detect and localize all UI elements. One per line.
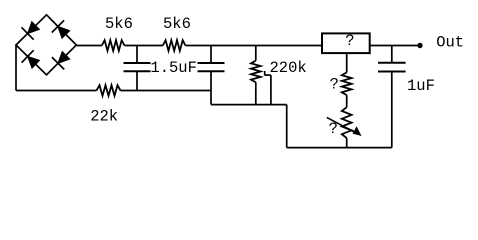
svg-text:22k: 22k — [90, 108, 118, 126]
resistor R3 22k — [97, 85, 121, 96]
diode D4 (bridge lower-right) — [52, 52, 70, 70]
wire mid rail — [211, 104, 287, 106]
tap wiper bar on 220k — [264, 71, 266, 75]
out terminal dot — [417, 43, 422, 48]
variable resistor VR1 (?) — [342, 107, 352, 138]
tap wire down — [270, 75, 272, 105]
diode bridge frame — [16, 15, 76, 75]
wire bridge left vertex down — [15, 45, 17, 91]
svg-text:1uF: 1uF — [407, 77, 435, 95]
diode D2 (bridge upper-right) — [52, 20, 70, 38]
wire R5 to VR1 — [346, 95, 348, 107]
capacitor C3 bottom lead — [391, 72, 393, 148]
diode D3 (bridge lower-left) — [22, 50, 40, 68]
wire bottom rail to 22k — [16, 90, 97, 92]
svg-text:Out: Out — [436, 34, 464, 52]
wire box bottom — [346, 53, 348, 72]
resistor R4 bottom lead — [255, 82, 257, 104]
capacitor C2 bottom lead — [210, 71, 212, 104]
wire 22k to C2 node — [121, 90, 212, 92]
resistor R2 5k6 — [163, 40, 186, 51]
svg-text:5k6: 5k6 — [163, 15, 191, 33]
svg-text:?: ? — [330, 76, 339, 94]
wire bridge to R1 — [76, 45, 102, 47]
tap wire horizontal — [265, 74, 271, 76]
svg-text:1.5uF: 1.5uF — [150, 59, 197, 77]
VR1 arrow — [327, 117, 359, 134]
capacitor C3 1uF top lead — [391, 46, 393, 63]
svg-text:?: ? — [329, 120, 338, 138]
resistor R1 5k6 — [102, 40, 125, 51]
wire mid rail corner down — [286, 105, 288, 148]
capacitor C1 bottom lead — [136, 71, 138, 90]
capacitor C2 plates — [198, 62, 225, 64]
wire R2 to box — [186, 45, 323, 47]
resistor R5 (?) — [342, 72, 352, 95]
svg-text:?: ? — [345, 32, 354, 50]
wire bottom rail right — [287, 147, 392, 149]
resistor R4 220k — [251, 61, 261, 83]
wire VR1 to bottom rail — [346, 138, 348, 148]
capacitor C1 top lead — [136, 46, 138, 64]
capacitor C1 plates — [124, 62, 151, 64]
diode D1 (bridge upper-left) — [22, 22, 40, 40]
wire box to out — [370, 45, 420, 47]
svg-text:5k6: 5k6 — [105, 15, 133, 33]
wire R1 to R2 — [125, 45, 163, 47]
box U1 (unknown) — [322, 33, 370, 53]
capacitor C3 plates — [378, 62, 406, 64]
capacitor C2 top lead — [210, 46, 212, 64]
svg-text:220k: 220k — [270, 59, 307, 77]
resistor R4 220k top lead — [255, 46, 257, 61]
